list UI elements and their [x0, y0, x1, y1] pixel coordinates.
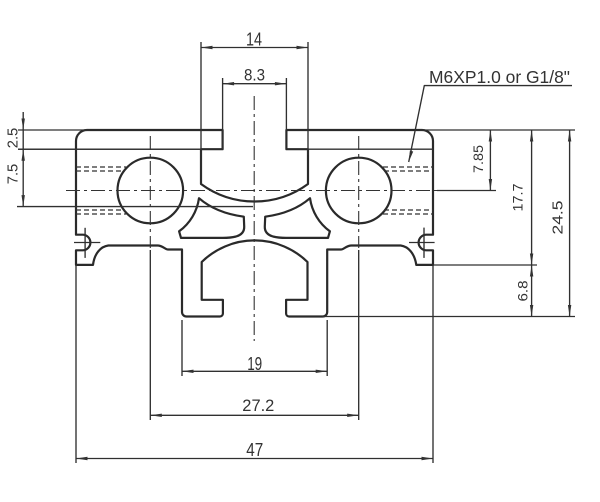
- right circle vertical centerline: [358, 136, 360, 248]
- dimension 19: [182, 320, 327, 376]
- left dims 2.5 / 7.5: [17, 112, 253, 207]
- leader M6 note: [409, 86, 572, 162]
- dimension 17.7: [531, 130, 533, 265]
- svg-text:M6XP1.0 or G1/8": M6XP1.0 or G1/8": [429, 67, 570, 87]
- right dims extension lines: [322, 130, 575, 317]
- svg-text:24.5: 24.5: [550, 201, 567, 235]
- dimension 24.5: [569, 130, 571, 317]
- dimension 6.8: [531, 265, 533, 317]
- flange internal line right at y=149: [308, 148, 433, 150]
- svg-text:17.7: 17.7: [510, 183, 526, 211]
- svg-text:7.5: 7.5: [5, 164, 22, 185]
- dimension 14: [201, 42, 308, 184]
- svg-text:14: 14: [246, 30, 262, 50]
- dimension 27.2: [150, 250, 358, 420]
- right cavity: [265, 198, 330, 238]
- left bore circle: [118, 158, 184, 224]
- svg-text:19: 19: [247, 354, 262, 374]
- hidden thread lines right port: [383, 167, 433, 214]
- svg-text:7.85: 7.85: [471, 145, 486, 173]
- svg-text:47: 47: [246, 439, 263, 460]
- svg-text:6.8: 6.8: [515, 280, 531, 301]
- hidden thread lines left port: [76, 167, 126, 214]
- dimension 7.85: [489, 130, 491, 191]
- port axis horizontal centerline: [66, 190, 437, 192]
- dimension 47: [76, 265, 433, 463]
- svg-text:27.2: 27.2: [242, 396, 274, 415]
- dimension 8.3: [223, 78, 287, 149]
- left circle vertical centerline: [149, 136, 151, 248]
- flange internal line left at y=149: [18, 148, 201, 150]
- svg-text:8.3: 8.3: [244, 66, 265, 85]
- extrusion outer profile: [76, 130, 433, 317]
- svg-text:2.5: 2.5: [5, 128, 22, 149]
- left notch crosshair: [74, 228, 100, 258]
- left cavity: [179, 198, 244, 238]
- right bore circle: [326, 158, 392, 224]
- right notch crosshair: [409, 228, 435, 258]
- main vertical centerline: [253, 96, 255, 341]
